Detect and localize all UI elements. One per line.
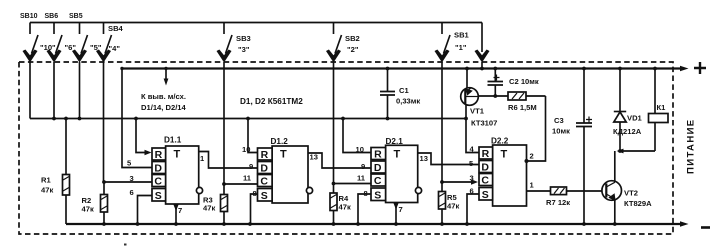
svg-text:C2 10мк: C2 10мк [509, 77, 539, 86]
svg-text:T: T [280, 149, 287, 161]
svg-text:S: S [482, 189, 489, 201]
svg-text:C: C [260, 176, 268, 188]
svg-text:47к: 47к [339, 203, 351, 212]
svg-text:47к: 47к [203, 204, 215, 213]
svg-text:S: S [155, 190, 162, 202]
svg-text:13: 13 [310, 153, 318, 162]
svg-text:C: C [374, 175, 382, 187]
svg-text:R: R [261, 149, 269, 161]
svg-text:VT2: VT2 [624, 189, 638, 198]
svg-text:47к: 47к [447, 202, 459, 211]
svg-text:SB4: SB4 [108, 24, 124, 33]
svg-text:D1.1: D1.1 [164, 136, 182, 145]
svg-text:VT1: VT1 [470, 107, 485, 116]
svg-text:"3": "3" [238, 45, 250, 54]
svg-text:SB3: SB3 [236, 34, 251, 43]
svg-text:К выв. м/сх.: К выв. м/сх. [141, 92, 186, 101]
svg-text:R1: R1 [41, 176, 51, 185]
svg-text:D: D [374, 162, 382, 174]
svg-text:D: D [154, 163, 162, 175]
svg-text:R7 12к: R7 12к [546, 198, 570, 207]
svg-text:11: 11 [357, 174, 366, 183]
svg-text:9: 9 [361, 162, 365, 171]
svg-text:VD1: VD1 [627, 114, 643, 123]
svg-text:T: T [394, 149, 401, 161]
svg-text:C: C [154, 176, 162, 188]
svg-text:C: C [481, 175, 489, 187]
svg-text:11: 11 [243, 174, 252, 183]
svg-text:T: T [174, 149, 181, 161]
svg-text:2: 2 [530, 152, 534, 161]
svg-text:10мк: 10мк [552, 127, 570, 136]
svg-text:6: 6 [130, 188, 134, 197]
svg-text:КТ3107: КТ3107 [471, 119, 497, 128]
svg-text:D2.2: D2.2 [491, 137, 509, 146]
svg-text:SB10: SB10 [20, 13, 38, 20]
svg-text:47к: 47к [41, 186, 53, 195]
svg-text:SB5: SB5 [69, 13, 83, 20]
svg-text:"1": "1" [455, 43, 467, 52]
svg-text:"6": "6" [65, 43, 77, 52]
svg-text:КД212А: КД212А [613, 127, 642, 136]
svg-text:D1, D2 К561ТМ2: D1, D2 К561ТМ2 [240, 97, 303, 106]
svg-text:C3: C3 [554, 116, 564, 125]
svg-text:R6 1,5М: R6 1,5М [508, 103, 537, 112]
svg-text:10: 10 [356, 145, 364, 154]
svg-text:7: 7 [399, 205, 403, 214]
svg-text:47к: 47к [82, 205, 94, 214]
svg-text:D: D [260, 163, 268, 175]
svg-text:ПИТАНИЕ: ПИТАНИЕ [686, 118, 697, 174]
svg-text:T: T [501, 149, 508, 161]
svg-text:S: S [374, 189, 381, 201]
svg-text:D1/14, D2/14: D1/14, D2/14 [141, 103, 187, 112]
svg-text:"10": "10" [40, 43, 56, 52]
svg-text:R: R [155, 149, 163, 161]
svg-text:S: S [261, 190, 268, 202]
svg-text:C1: C1 [399, 86, 409, 95]
svg-text:"5": "5" [90, 43, 102, 52]
svg-text:"4": "4" [109, 44, 121, 53]
svg-text:10: 10 [242, 145, 250, 154]
svg-text:R: R [482, 148, 490, 160]
svg-text:"2": "2" [347, 45, 359, 54]
svg-text:0,33мк: 0,33мк [396, 97, 420, 106]
svg-text:К1: К1 [657, 103, 667, 112]
svg-text:R: R [374, 149, 382, 161]
svg-text:КТ829А: КТ829А [624, 199, 652, 208]
svg-text:7: 7 [178, 206, 182, 215]
svg-text:D1.2: D1.2 [271, 137, 289, 146]
svg-text:D: D [481, 162, 489, 174]
svg-text:9: 9 [249, 162, 253, 171]
svg-text:13: 13 [420, 154, 428, 163]
svg-text:SB2: SB2 [345, 34, 360, 43]
svg-text:SB1: SB1 [454, 31, 470, 40]
svg-text:SB6: SB6 [45, 13, 59, 20]
